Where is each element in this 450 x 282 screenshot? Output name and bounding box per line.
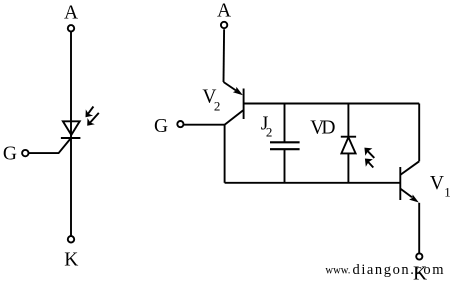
svg-text:A: A	[64, 2, 78, 23]
light arrow 1 into VD	[364, 148, 374, 158]
terminal K (right)	[416, 253, 422, 259]
svg-text:A: A	[217, 1, 231, 22]
wire V1 emitter to K	[418, 203, 420, 254]
transistor V1 (NPN)	[400, 161, 419, 202]
light arrow 2 into thyristor	[87, 113, 99, 126]
svg-text:2: 2	[214, 99, 221, 114]
terminal G (left)	[22, 150, 28, 156]
wire bottom (to V1 base)	[225, 182, 401, 184]
label V1	[430, 173, 450, 200]
wire V2 base to V1 collector (top horizontal)	[244, 103, 420, 105]
wire V2 collector (left vertical)	[224, 125, 226, 183]
svg-text:VD: VD	[310, 117, 335, 138]
svg-text:www.: www.	[325, 265, 350, 277]
wire G to V2 collector	[184, 124, 225, 126]
svg-text:2: 2	[266, 124, 273, 139]
terminal A (left)	[68, 25, 74, 31]
terminal G (right)	[177, 121, 183, 127]
svg-text:diangon.com: diangon.com	[353, 262, 445, 278]
label V2	[202, 87, 220, 114]
photodiode VD	[341, 104, 356, 183]
gate wire (left)	[28, 138, 71, 153]
svg-text:G: G	[3, 143, 17, 164]
light arrow 1 into thyristor	[86, 107, 94, 118]
svg-text:K: K	[64, 249, 78, 270]
capacitor J2	[270, 104, 300, 183]
wire A to K (left vertical)	[70, 32, 72, 236]
thyristor triangle (left LASCR)	[63, 121, 80, 135]
svg-text:G: G	[154, 116, 168, 137]
terminal A (right)	[221, 22, 227, 28]
light arrow 2 into VD	[365, 159, 373, 168]
thyristor cathode bar	[61, 137, 81, 139]
terminal K (left)	[68, 236, 74, 242]
svg-text:V: V	[430, 173, 444, 194]
wire V1 collector up (right vertical)	[418, 104, 420, 162]
wire A to V2 emitter	[223, 29, 226, 82]
watermark www.diangon.com	[325, 262, 444, 278]
svg-text:1: 1	[444, 184, 450, 199]
label J2	[261, 113, 273, 139]
transistor V2 (PNP)	[224, 82, 244, 125]
